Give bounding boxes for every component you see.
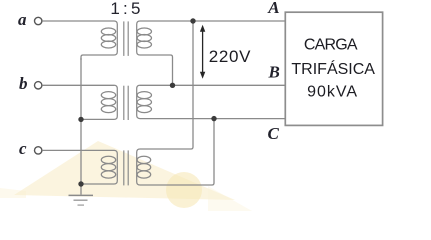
load box bbox=[285, 12, 382, 125]
transformer T2 core bbox=[124, 86, 128, 120]
neutral bus wire (primary star point) bbox=[80, 58, 82, 195]
wire node C: T2 secondary bottom to load bbox=[140, 118, 286, 120]
svg-text:B: B bbox=[268, 62, 280, 81]
wire T1 secondary bottom to node B bbox=[140, 55, 173, 85]
svg-text:b: b bbox=[19, 74, 28, 93]
svg-text:TRIFÁSICA: TRIFÁSICA bbox=[291, 59, 375, 78]
wire node A: T1 secondary top to load bbox=[140, 20, 286, 22]
transformer T3 secondary winding bbox=[137, 149, 151, 185]
transformer T1 core bbox=[124, 21, 128, 56]
wire node A to T3 secondary top bbox=[140, 21, 193, 149]
wire T1 primary bottom to neutral bus bbox=[81, 55, 114, 60]
voltage arrow 220V (double headed) bbox=[200, 25, 205, 79]
junction: T2 primary bottom on neutral bus bbox=[78, 117, 83, 122]
terminal b bbox=[35, 82, 42, 89]
transformer T2 secondary winding bbox=[137, 85, 152, 118]
terminal a bbox=[35, 17, 42, 24]
svg-text:CARGA: CARGA bbox=[304, 36, 358, 53]
junction: T3 primary bottom on neutral bus bbox=[78, 181, 83, 186]
wire c to T3 primary bbox=[42, 149, 114, 151]
transformer T3 core bbox=[124, 150, 128, 185]
transformer T1 secondary winding bbox=[137, 21, 152, 55]
svg-text:90kVA: 90kVA bbox=[307, 84, 358, 101]
wire node C to T3 secondary bottom bbox=[140, 119, 214, 185]
ground bbox=[69, 195, 94, 205]
transformer T1 primary winding bbox=[101, 21, 117, 55]
transformer T3 primary winding bbox=[101, 150, 117, 184]
junction: T1 secondary bottom on node B bbox=[170, 83, 175, 88]
svg-text:A: A bbox=[267, 0, 279, 17]
junction: node C tap bbox=[211, 116, 216, 121]
svg-text:C: C bbox=[268, 124, 280, 143]
svg-text:c: c bbox=[19, 139, 27, 158]
svg-text:1:5: 1:5 bbox=[110, 0, 143, 18]
junction: node A tap bbox=[190, 18, 195, 23]
wire node B: T2 secondary top to load bbox=[140, 84, 286, 86]
wire T2 primary bottom to neutral bus bbox=[81, 118, 114, 120]
svg-text:a: a bbox=[18, 10, 27, 29]
terminal c bbox=[35, 147, 42, 154]
wire T3 primary bottom to neutral bus bbox=[81, 183, 114, 185]
wire b to T2 primary bbox=[42, 84, 114, 86]
svg-text:220V: 220V bbox=[209, 47, 252, 66]
transformer T2 primary winding bbox=[101, 85, 117, 119]
wire a to T1 primary bbox=[42, 20, 114, 22]
